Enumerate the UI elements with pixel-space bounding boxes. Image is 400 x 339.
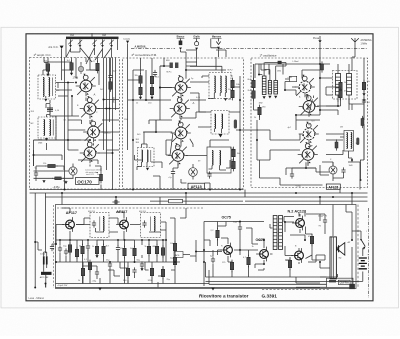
wire section1 top grid <box>48 58 111 73</box>
capacitor C3 electrolytic <box>34 170 38 177</box>
wire S1 extra mesh <box>34 58 120 172</box>
osc coil L5a (striped) <box>336 74 341 96</box>
resistor R26 <box>95 244 98 257</box>
label box AF115 (S3) <box>326 184 340 189</box>
transistor Q3 <box>83 120 103 143</box>
resistor R11 <box>150 85 153 98</box>
transistor Q10 <box>299 94 319 117</box>
wire jack leads <box>206 262 359 287</box>
section box: 2nd converter (dashed) <box>123 58 244 189</box>
bus rail 4 <box>245 200 368 202</box>
wire S2 grid <box>128 57 240 190</box>
IF transformer MF3 (dashed) <box>90 213 109 238</box>
arrow ground R2 <box>70 73 73 76</box>
capacitor C19 electrolytic <box>95 269 99 276</box>
bus rail 3 <box>45 196 368 198</box>
section box: 1st RF amplifier (dashed) <box>30 58 120 190</box>
wire audio row2 links <box>83 262 175 284</box>
wire right edge net <box>361 105 365 180</box>
transistor Q13 AF117 <box>62 217 74 232</box>
transistor Q12 <box>298 142 318 165</box>
terminal Giallo <box>195 39 199 63</box>
audio inner dashed lines <box>53 205 55 288</box>
capacitor C17 <box>116 245 120 252</box>
antenna coil L4c (striped) <box>274 81 278 95</box>
resistor R43 <box>81 266 84 279</box>
terminal Presa <box>318 36 321 115</box>
transistor Q8 <box>168 143 188 166</box>
capacitor C7 0.5u <box>290 171 294 178</box>
resistor R36 <box>230 260 233 273</box>
resistor R21 <box>339 88 342 101</box>
capacitor C21 MF2 bottom <box>207 171 211 178</box>
terminal Marrone <box>211 39 221 58</box>
IF transformer MF2 (dashed can) <box>211 111 229 135</box>
resistor R39 <box>310 234 313 247</box>
junction dots rails <box>61 192 63 194</box>
resistor R30 <box>147 244 150 257</box>
fuse F1 on rail <box>169 199 183 202</box>
headphone jack CUFFIA <box>327 278 354 287</box>
resistor R32 <box>173 241 176 254</box>
MF2 coil a <box>215 114 216 129</box>
terminal Bianco top <box>179 39 186 71</box>
resistor R38 <box>288 258 291 271</box>
arrow L4a <box>263 96 266 99</box>
wire antenna drop <box>352 49 355 72</box>
label Marrone <box>212 37 222 39</box>
bus rail 2 <box>30 192 368 194</box>
resistor R48 right edge <box>361 116 364 128</box>
wire ferrite net <box>44 252 47 288</box>
resistor R19 <box>258 105 261 118</box>
transistor Q6 <box>170 96 190 119</box>
wire S2 terminal links <box>186 50 226 57</box>
resistor R45 <box>150 266 153 279</box>
wire S1 bottom row <box>34 166 102 190</box>
diode D1 in circle <box>69 164 77 179</box>
capacitor C23 padder <box>47 108 53 111</box>
capacitor C6 <box>341 167 345 174</box>
wire gang to frame <box>66 33 118 58</box>
dashed divider audio right <box>357 205 359 289</box>
IF transformer MF2b (solid can) <box>207 147 231 173</box>
can B coil a <box>44 120 45 136</box>
resistor R44 <box>126 266 129 279</box>
resistor R41 <box>75 247 78 260</box>
junction dots S3 <box>319 77 321 79</box>
wire battery net <box>352 231 364 281</box>
label Bianco top <box>177 37 185 39</box>
dash-dot chassis line top right <box>219 47 368 49</box>
capacitor C22 bar a <box>43 256 45 264</box>
wire audio row line <box>56 239 166 241</box>
arrow rail marker 1 <box>211 288 214 291</box>
arrow ground R1 <box>46 74 49 77</box>
dash-dot chassis line left <box>131 48 175 50</box>
wire audio bottom rails <box>56 284 321 288</box>
arrow gnd R9 <box>139 97 142 100</box>
transistor Q5 converter <box>171 75 191 98</box>
MF4 capacitor <box>142 220 146 227</box>
wire bottom dashes right <box>262 289 330 291</box>
transistor Q17 AC128 <box>292 216 304 231</box>
tuning capacitor gang bar <box>66 37 119 40</box>
antenna symbol <box>351 38 359 49</box>
MF4 core <box>150 217 152 232</box>
wire S3 extra mesh <box>254 64 365 193</box>
wire audio left grid <box>56 225 180 284</box>
capacitor C9 <box>58 245 62 252</box>
junction dots audio <box>59 239 61 241</box>
wire MF2 taps <box>198 127 222 135</box>
capacitor C13 50uF <box>238 224 242 231</box>
arrow MF1 tap <box>224 98 227 101</box>
transistor Q11 <box>299 122 319 145</box>
resistor R1 82k <box>46 61 49 74</box>
output transformer T3 <box>330 237 336 279</box>
resistor R17 <box>252 78 255 91</box>
feedthrough pill S3 <box>356 138 359 146</box>
MF3 core <box>99 217 101 232</box>
arrow L4c <box>274 96 277 99</box>
arrow gnd S1a <box>42 180 45 183</box>
capacitor C8 top <box>112 200 119 204</box>
switch S1 <box>360 231 365 249</box>
capacitor C15 100uF <box>323 217 327 224</box>
diode D2 detector in circle <box>189 164 198 180</box>
wire MF2b taps <box>209 166 227 171</box>
IF transformer MF4 (dashed) <box>141 213 161 238</box>
resistor R8 <box>139 73 142 86</box>
terminal Catodo <box>126 41 129 58</box>
arrow MF2 tap <box>218 134 222 138</box>
resistor R12 <box>231 78 234 91</box>
resistor R22 dark <box>335 139 338 150</box>
arrow gnd audio b <box>140 268 143 271</box>
antenna coil L4b (striped) <box>268 81 271 95</box>
resistor R35 2.2k <box>216 228 219 241</box>
resistor R18 <box>252 88 255 101</box>
bus rail 1 <box>30 189 244 191</box>
trimmer capacitor CV1 <box>68 39 72 47</box>
resistor R7 <box>100 172 103 184</box>
can B inner line <box>52 120 54 136</box>
oscillator coil MF small blobs <box>170 63 173 69</box>
resistor R3 <box>96 61 99 74</box>
resistor R40 <box>68 242 71 255</box>
wire S3 grid <box>254 58 365 166</box>
schematic border frame <box>26 34 373 301</box>
transistor Q7 <box>171 121 191 144</box>
trimmer capacitor CV4 <box>100 39 104 47</box>
wire rail drops to audio <box>46 190 353 254</box>
transistor Q4 <box>80 141 100 164</box>
capacitor C20 <box>132 267 136 274</box>
resistor R13 <box>231 88 234 101</box>
crystal X1 in circle <box>329 162 337 178</box>
coupling cap dark on wire <box>278 61 282 64</box>
junction dots audio extra <box>55 243 57 245</box>
wire audio extra mesh <box>35 193 352 288</box>
wire S1 diagonals under gang <box>66 48 112 65</box>
trimmer capacitor CV5 <box>109 39 113 47</box>
resistor R5 <box>45 164 58 167</box>
resistor R29 <box>133 246 136 259</box>
arrow can A tap <box>44 99 47 102</box>
arrow S2 can tap <box>146 168 149 171</box>
resistor R46 <box>161 267 164 280</box>
junction dots S3 extra <box>284 89 286 91</box>
MF2b coil a <box>212 151 213 166</box>
dash-dot battery line <box>367 208 369 298</box>
transistor Q9 mixer <box>295 75 315 98</box>
wire S2 can taps <box>137 144 147 170</box>
arrow can B tap <box>45 138 48 141</box>
wire antenna feed <box>61 58 63 81</box>
note text connections <box>85 169 101 177</box>
loudspeaker <box>337 243 345 256</box>
capacitor C2 <box>108 73 112 80</box>
transistor Q2 <box>80 96 100 119</box>
arrow L4b <box>268 96 271 99</box>
resistor R25 <box>81 244 84 257</box>
junction dots S1 <box>67 82 69 84</box>
trimmer capacitor CV3 <box>92 39 96 47</box>
label box AF115 (S2) <box>188 183 205 189</box>
MF2b coil b <box>220 151 221 166</box>
junction dots audio right <box>203 249 205 251</box>
electrolytic C12 <box>140 261 144 268</box>
capacitor C1 variable <box>78 64 83 74</box>
MF1 coil c <box>225 76 226 93</box>
capacitor C22 bar b <box>46 256 48 264</box>
box F100 <box>290 76 297 81</box>
resistor R9 <box>139 85 142 98</box>
RF coil can B (dashed) <box>38 117 56 138</box>
resistor R34 <box>88 260 91 273</box>
label box CUFFIA <box>338 280 350 285</box>
label A.MODUL <box>135 46 148 49</box>
MF1 coil a <box>214 76 215 93</box>
capacitor C14 <box>211 256 215 263</box>
arrow gnd S1b <box>64 181 67 184</box>
arrow gnd R11 <box>150 97 153 100</box>
wire audio output extra <box>290 235 330 268</box>
resistor R6 <box>52 177 64 180</box>
jack plug hatched <box>349 284 355 289</box>
resistor R33 <box>173 255 176 268</box>
MF4 coil b <box>154 217 155 232</box>
label Giallo <box>193 37 200 39</box>
MF1 coil b <box>220 76 221 93</box>
wire S2 extra mesh <box>128 58 258 190</box>
wire MF1 taps <box>190 66 225 98</box>
junction dot output <box>304 239 306 241</box>
volume potentiometer APS <box>174 252 183 258</box>
electrolytic C10 <box>64 248 68 255</box>
resistor R42 <box>161 245 164 258</box>
transistor Q15 OC75 <box>220 243 232 258</box>
section box: oscillator/mixer (dashed) <box>251 58 368 188</box>
antenna terminal Ant. N.C. <box>60 46 64 58</box>
transistor Q16 OC75 <box>256 247 268 262</box>
resistor R37 4.7k <box>247 255 250 268</box>
arrow right edge <box>362 93 365 96</box>
audio amplifier box <box>56 205 357 289</box>
arrow rail marker 2 <box>98 288 101 291</box>
oscillator coil can S2 (dashed) <box>138 148 155 167</box>
transistor Q18 AC128 <box>291 248 303 263</box>
resistor R10 <box>150 74 153 87</box>
trimmer capacitor CV2 <box>78 39 82 47</box>
IF transformer MF1 (dashed can) <box>209 73 231 99</box>
S2 can inner line <box>150 150 152 162</box>
antenna coil L4a (striped) <box>262 76 266 95</box>
scan noise overlay <box>0 0 1 1</box>
resistor R24 <box>362 80 365 93</box>
feedthrough pill <box>234 120 237 129</box>
capacitor C11 <box>108 261 112 268</box>
S2 can coil a <box>142 150 143 162</box>
wire S3 bottom <box>292 162 360 190</box>
wire trimmer drops <box>71 48 112 58</box>
battery B1 <box>359 248 367 281</box>
junction dots S1 extra <box>67 139 69 141</box>
resistor R20 <box>339 80 342 93</box>
label box OC170 <box>76 178 100 185</box>
IF coil can S3 (solid) <box>344 131 354 152</box>
S3 can coil b <box>351 133 352 149</box>
transistor Q14 AF117 <box>116 217 128 232</box>
resistor R16 <box>232 159 235 172</box>
can A inner line <box>51 78 53 97</box>
capacitor C18 <box>50 244 54 251</box>
RF coil can A (dashed) <box>38 75 56 99</box>
resistor R27 <box>102 244 105 257</box>
wire S2 lower grid <box>144 120 234 190</box>
capacitor C16 <box>86 243 90 250</box>
junction dots S2 <box>132 99 134 101</box>
wire coil chain <box>43 62 50 150</box>
capacitor C5 electrolytic <box>171 169 175 176</box>
S2 can coil b <box>147 150 148 162</box>
oscillator coil can (dashed) <box>333 71 358 100</box>
resistor R2 <box>70 60 73 73</box>
capacitor C4 <box>153 70 157 77</box>
capacitor C24 right edge <box>362 97 366 104</box>
MF3 coil b <box>103 217 104 232</box>
wire audio right grid <box>204 205 333 287</box>
MF3 capacitor <box>92 220 96 227</box>
can B coil b <box>50 120 51 136</box>
osc coil L5b (striped) <box>347 74 352 96</box>
wire S1 interconnect <box>34 58 94 190</box>
junction dots S2 extra <box>145 99 147 101</box>
MF2 coil b <box>222 114 223 129</box>
S3 can coil a <box>347 133 348 149</box>
can A coil b <box>49 78 50 97</box>
junction dot coil <box>258 74 260 76</box>
resistor R47 presa net <box>321 61 324 72</box>
ANT CAT block <box>41 272 52 275</box>
resistor R15 <box>232 147 235 160</box>
resistor R28 <box>123 246 126 259</box>
wire S1 bus verticals <box>98 58 120 191</box>
junction dot right edge <box>360 179 362 181</box>
arrow gnd audio a <box>95 255 98 258</box>
wire antenna coil hairpin <box>259 63 286 81</box>
resistor R4 <box>109 79 112 92</box>
driver transformer T2 (striped) <box>273 216 277 250</box>
transistor Q1 OC170 stage a <box>76 74 96 97</box>
resistor R31 <box>155 244 158 257</box>
can A coil a <box>43 78 44 97</box>
